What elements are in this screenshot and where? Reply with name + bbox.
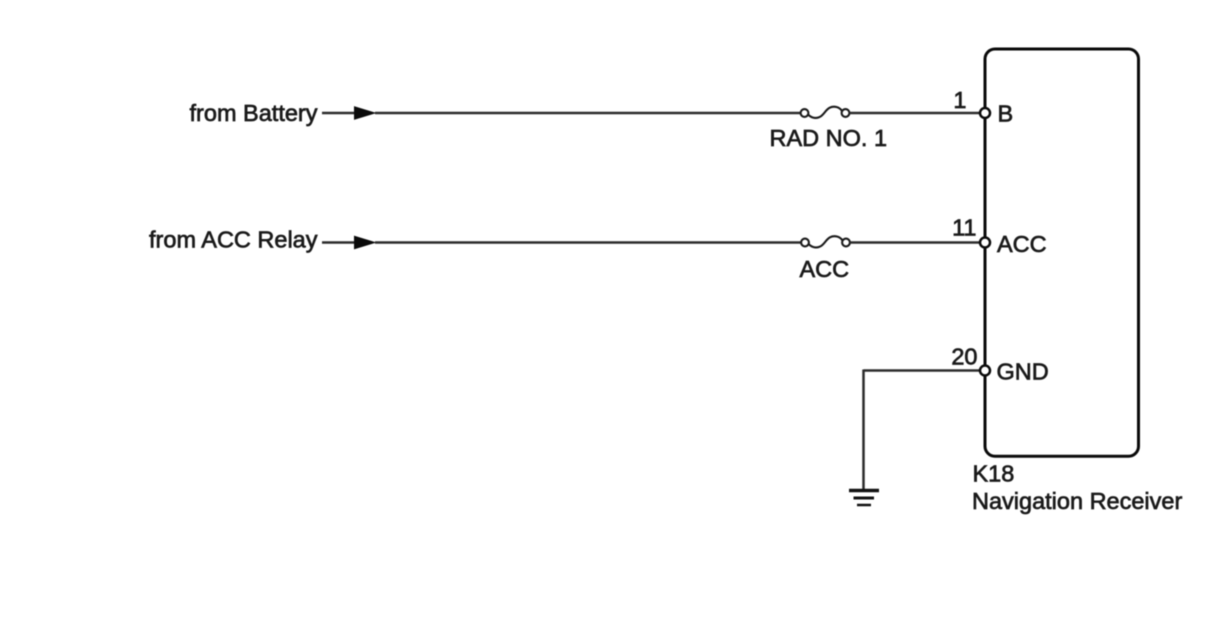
wire fuse to pin 1 [850, 112, 983, 115]
svg-text:Navigation Receiver: Navigation Receiver [972, 488, 1182, 514]
fuse RAD NO. 1 [801, 107, 850, 118]
connector K18 Navigation Receiver box [985, 49, 1139, 456]
wire fuse to pin 11 [850, 241, 982, 244]
svg-text:RAD NO. 1: RAD NO. 1 [770, 125, 888, 151]
pin 20 terminal circle [980, 366, 990, 376]
wire ground horizontal to pin 20 [864, 369, 983, 372]
svg-text:ACC: ACC [800, 256, 850, 282]
wire arrow to fuse ACC [375, 241, 801, 244]
svg-text:1: 1 [953, 87, 966, 113]
fuse ACC [801, 236, 850, 247]
pin 11 terminal circle [980, 238, 990, 248]
arrowhead battery wire [354, 106, 377, 120]
ground [849, 491, 879, 506]
svg-text:from Battery: from Battery [190, 100, 318, 126]
svg-text:ACC: ACC [997, 231, 1047, 257]
svg-text:GND: GND [997, 359, 1049, 385]
svg-text:B: B [998, 101, 1014, 127]
svg-text:from ACC Relay: from ACC Relay [149, 226, 318, 252]
wire arrow to fuse RAD NO. 1 [375, 112, 800, 115]
pin 1 terminal circle [980, 108, 990, 118]
svg-text:11: 11 [952, 214, 976, 240]
wire from ACC Relay to arrow [322, 241, 355, 244]
arrowhead ACC wire [354, 236, 377, 250]
wire from Battery to arrow [322, 112, 355, 115]
svg-text:K18: K18 [973, 460, 1015, 486]
wire ground vertical [862, 370, 865, 490]
svg-text:20: 20 [951, 344, 977, 370]
